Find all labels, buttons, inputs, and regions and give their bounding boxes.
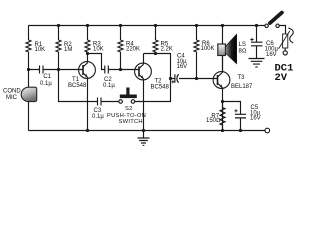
node: T3 emitter / R7 / C5 junction — [221, 100, 224, 103]
wire: T1 collector step to C2 — [88, 54, 105, 70]
transistor T3 — [213, 56, 253, 131]
svg-text:1M: 1M — [64, 47, 72, 53]
svg-text:10K: 10K — [93, 47, 104, 53]
svg-text:220K: 220K — [126, 47, 140, 53]
node: top rail / speaker — [221, 24, 224, 27]
wire: ground bottom rail — [29, 130, 266, 132]
capacitor C3 — [92, 98, 119, 121]
svg-text:0.1µ: 0.1µ — [40, 81, 52, 87]
svg-text:16V: 16V — [250, 116, 261, 122]
capacitor C4 (electrolytic) — [144, 54, 197, 84]
capacitor C5 (electrolytic) — [223, 102, 261, 131]
loudspeaker LS 8 ohm — [218, 26, 247, 72]
node: top rail / C6 — [255, 24, 258, 27]
node: T2 collector / R5 junction — [154, 52, 157, 55]
svg-text:16V: 16V — [177, 64, 188, 70]
svg-text:C1: C1 — [43, 74, 51, 80]
resistor R6 — [194, 26, 215, 79]
svg-text:2V: 2V — [275, 72, 288, 84]
svg-text:MIC: MIC — [6, 95, 18, 101]
transistor T1 — [68, 54, 95, 131]
node: T1 emitter / bottom rail — [86, 129, 89, 132]
svg-text:10K: 10K — [35, 47, 46, 53]
wire: feedback drop from base node to C3 row — [59, 70, 98, 102]
resistor R4 — [118, 26, 140, 70]
switch S2 (push-to-on) — [107, 79, 171, 126]
resistor R5 — [153, 26, 173, 54]
node: T1 base junction — [57, 68, 60, 71]
node: top rail / R3 — [86, 24, 89, 27]
svg-text:0.1µ: 0.1µ — [92, 114, 104, 120]
capacitor C1 — [29, 66, 59, 87]
wire: S1 to DC plug — [279, 26, 285, 35]
svg-text:PUSH-TO-ON: PUSH-TO-ON — [107, 113, 146, 119]
node: C5 / bottom rail — [239, 129, 242, 132]
ground symbol (C6) — [249, 59, 265, 67]
capacitor C6 (electrolytic) — [250, 26, 278, 59]
svg-text:SWITCH: SWITCH — [119, 119, 143, 125]
resistor R2 — [56, 26, 72, 70]
svg-text:8Ω: 8Ω — [239, 49, 247, 55]
wire: V+ top rail — [29, 25, 265, 27]
wire: left riser R1 top corner — [28, 26, 30, 41]
node: T1 collector / R3 junction — [86, 52, 89, 55]
switch S1 (toggle, open) — [265, 13, 282, 28]
terminal: bottom rail right end — [265, 128, 270, 133]
svg-text:LS: LS — [239, 42, 246, 48]
node: T2 base junction — [119, 68, 122, 71]
node: C4 / feedback junction — [169, 77, 172, 80]
svg-text:0.1µ: 0.1µ — [103, 83, 115, 89]
node: top rail / R5 — [154, 24, 157, 27]
node: top rail / R6 — [195, 24, 198, 27]
svg-text:BEL187: BEL187 — [231, 84, 253, 90]
capacitor C2 — [103, 66, 121, 90]
wire: to T2 base — [121, 69, 140, 71]
svg-text:S2: S2 — [125, 106, 133, 112]
svg-text:COND.: COND. — [3, 89, 23, 95]
resistor R7 — [206, 102, 225, 131]
resistor R1 — [26, 40, 45, 70]
svg-text:150Ω: 150Ω — [206, 118, 221, 124]
node: top rail / R4 — [119, 24, 122, 27]
svg-text:16V: 16V — [266, 52, 277, 58]
DC plug PL1 (12V input) — [275, 28, 294, 84]
wire: base node to T1 base — [59, 69, 84, 71]
svg-text:2.2K: 2.2K — [161, 47, 173, 53]
svg-text:BC548: BC548 — [68, 83, 87, 89]
transistor T2 — [135, 54, 170, 131]
svg-text:T3: T3 — [238, 75, 246, 81]
ground symbol (bottom rail) — [138, 131, 150, 146]
svg-text:100K: 100K — [201, 46, 215, 52]
node: mic/C1/R1 junction — [27, 68, 30, 71]
node: top rail / R2 — [57, 24, 60, 27]
node: R7 / bottom rail — [221, 129, 224, 132]
wire: to T3 base — [197, 78, 218, 80]
node: T2 emitter / bottom rail — [142, 129, 145, 132]
resistor R3 — [85, 26, 104, 54]
condenser mic MIC1 — [3, 70, 37, 131]
svg-text:BC548: BC548 — [151, 85, 170, 91]
node: T3 base junction — [195, 77, 198, 80]
